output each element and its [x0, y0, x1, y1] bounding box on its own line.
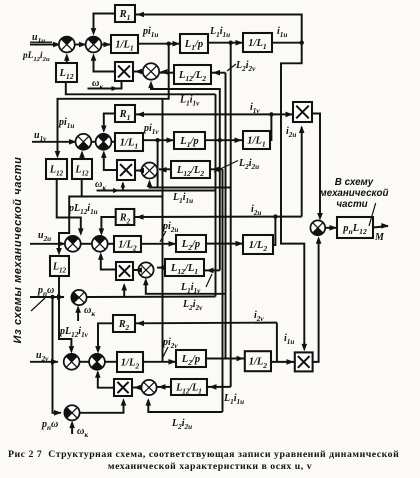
svg-text:L2i2v: L2i2v — [235, 60, 256, 73]
wire sum2B to 1/L1 row2 — [111, 141, 115, 143]
block pn L12 — [337, 217, 373, 238]
svg-text:L2i2v: L2i2v — [182, 299, 203, 312]
wire X torque v down — [312, 114, 320, 217]
svg-text:i1u: i1u — [277, 26, 287, 39]
summing junction row2 B — [96, 134, 112, 150]
wire i2u up — [273, 217, 275, 245]
wire i1v to X top right — [270, 114, 293, 140]
wire R2 out row3 — [101, 217, 115, 231]
svg-text:i2u: i2u — [286, 126, 296, 139]
summing junction row4 B — [89, 354, 105, 370]
svg-text:1/L1: 1/L1 — [247, 135, 266, 148]
summing junction row4 A — [64, 354, 80, 370]
bus L1i1u — [230, 43, 232, 387]
wire L12/L2 out row1 — [160, 72, 174, 74]
block L12/L1 row3 — [165, 259, 204, 276]
svg-text:1/L1: 1/L1 — [248, 38, 267, 51]
wire X out to sum row4 — [98, 372, 114, 388]
block R1 row1 — [115, 5, 135, 22]
wire wk into X row1 — [88, 81, 122, 89]
multiplier X torque u — [295, 352, 313, 371]
wire R2 out row4 — [98, 323, 113, 349]
node i1u — [300, 41, 304, 45]
block 1/L1 right row1 — [243, 33, 272, 52]
wire wk stub — [77, 308, 79, 321]
svg-text:pi2u: pi2u — [162, 221, 178, 234]
svg-text:i2u: i2u — [251, 204, 261, 217]
svg-text:L1i1v: L1i1v — [179, 95, 200, 108]
bus L2i2v — [225, 73, 227, 359]
svg-text:1/L2: 1/L2 — [118, 239, 137, 252]
block L2/p row4 — [176, 350, 206, 367]
multiplier X row1 — [115, 62, 133, 81]
svg-text:R1: R1 — [119, 109, 131, 122]
block R2 row3 — [116, 209, 135, 225]
wire L2/p out row3 — [206, 243, 243, 245]
wire L12/L1 out row4 — [157, 386, 171, 388]
wire wk stub bottom — [71, 423, 73, 434]
svg-text:1/L1: 1/L1 — [120, 137, 139, 150]
wire R1 out row2 — [104, 114, 115, 131]
wire M out — [373, 226, 388, 228]
wire wk out — [87, 296, 216, 299]
svg-text:R1: R1 — [119, 9, 131, 22]
multiplier X row3 — [116, 262, 133, 280]
block 1/L2 right row4 — [245, 351, 271, 371]
summing junction torque — [310, 220, 325, 235]
wire X out to sum row3 — [101, 255, 116, 270]
flux sum circle row1 — [143, 63, 159, 79]
svg-text:u2u: u2u — [38, 230, 51, 243]
pointer L2i2u — [214, 161, 238, 173]
block L2/p row3 — [176, 235, 206, 252]
summing junction row1 B — [86, 37, 102, 53]
svg-text:ωк: ωк — [84, 305, 95, 318]
wire sum1B to 1/L1 — [101, 44, 111, 46]
wire i2u right — [275, 216, 301, 218]
svg-text:pi1u: pi1u — [142, 26, 158, 39]
underline u1u — [30, 41, 52, 43]
caption line 1 — [8, 449, 414, 460]
svg-text:i2v: i2v — [254, 310, 264, 323]
block L12 B row2 — [72, 159, 92, 179]
wire X out to sum row2 — [104, 153, 117, 170]
wire i2u feed to L12 row1 — [66, 82, 216, 94]
node pn w — [50, 295, 54, 299]
pointer L1i1v — [206, 274, 212, 287]
node pi1v — [155, 138, 159, 142]
pointer pi2v — [163, 347, 169, 358]
svg-text:pL12i1u: pL12i1u — [68, 203, 98, 216]
wire sum4B to 1/L2 row4 — [105, 361, 117, 363]
wire flux sum to X row2 — [135, 170, 142, 172]
wire sum1A to sum1B — [75, 44, 86, 46]
wire L12/L1 out row3 — [157, 267, 165, 269]
wire X torque up — [313, 241, 319, 362]
block L1/p row1 — [180, 34, 208, 53]
wire pL12i1v down to row4 — [59, 276, 71, 349]
wire R1 out to sum row1 — [94, 14, 116, 31]
wire pn w input — [30, 296, 64, 298]
block L12/L1 row4 — [171, 379, 207, 395]
wire u1u input — [30, 44, 60, 46]
svg-text:1/L2: 1/L2 — [121, 357, 140, 370]
svg-text:L12/L1: L12/L1 — [175, 382, 202, 395]
svg-text:1/L2: 1/L2 — [249, 357, 268, 370]
wire i1u to R1 row1 — [135, 15, 302, 43]
flux sum circle row2 — [142, 163, 158, 179]
wire wk out bottom — [80, 401, 124, 413]
wire 1/L1 to L1/p row1 — [138, 43, 180, 45]
block 1/L1 right row2 — [243, 131, 270, 149]
svg-text:L12/L1: L12/L1 — [170, 263, 198, 276]
svg-text:L12: L12 — [74, 164, 89, 177]
block 1/L2 row4 — [117, 352, 143, 372]
summing junction row2 A — [76, 134, 92, 150]
svg-text:L12: L12 — [52, 261, 67, 274]
block 1/L2 row3 — [114, 236, 141, 252]
wire i2v to R2 row4 — [135, 322, 277, 325]
block R1 row2 — [115, 105, 135, 122]
svg-text:L1/p: L1/p — [179, 136, 198, 149]
wire wk up into X row3 — [123, 285, 125, 297]
bus omega line — [215, 94, 217, 296]
svg-text:L1i1u: L1i1u — [223, 393, 244, 406]
wire sum4A to sum4B — [80, 361, 90, 363]
pointer pi2u — [160, 231, 166, 242]
wire feed L12B — [81, 179, 83, 197]
wire pn w down — [53, 297, 62, 413]
svg-text:L12/L2: L12/L2 — [178, 70, 206, 83]
wire wk up into X row2 — [122, 183, 124, 191]
wire i1v to R1 row2 — [135, 113, 271, 115]
svg-text:механической: механической — [320, 188, 389, 199]
svg-text:pi1v: pi1v — [143, 123, 159, 136]
pointer L2i2v — [227, 64, 236, 71]
wire i2u up to X — [301, 127, 303, 217]
flux sum circle row3 — [138, 262, 153, 277]
svg-text:L2i2u: L2i2u — [238, 158, 259, 171]
pointer from mech part — [31, 298, 45, 311]
wire i2v out — [271, 361, 295, 363]
svg-text:pпω: pпω — [41, 419, 58, 432]
summing junction row3 A — [65, 236, 81, 252]
wire 1/L2 to L2/p row3 — [141, 243, 176, 245]
node i1v — [269, 112, 273, 116]
block 1/L1 row2 — [115, 133, 143, 151]
svg-text:pL12i2u: pL12i2u — [22, 51, 50, 63]
svg-text:u1u: u1u — [32, 32, 45, 45]
wire sum2A to sum2B — [91, 141, 96, 143]
summing junction row3 B — [92, 236, 108, 252]
node pi1u — [167, 42, 171, 46]
svg-text:L12: L12 — [58, 68, 73, 81]
wire L1i1v to flux sum row1 — [151, 84, 221, 89]
svg-text:R2: R2 — [118, 319, 130, 332]
wire i2v branch up — [276, 323, 278, 362]
wire sum3A to sum3B — [81, 243, 92, 245]
svg-text:pi1u: pi1u — [58, 117, 74, 130]
wire cross branch down to L12 row3 — [59, 197, 163, 252]
wire L2/p out row4 — [206, 358, 245, 360]
wire L1/p to 1/L1 right row1 — [208, 42, 243, 44]
multiplier X row2 — [117, 160, 135, 180]
wire u2u input — [30, 243, 65, 245]
caption line 2 — [0, 461, 420, 472]
wire flux sum to X row3 — [133, 269, 138, 271]
wire i1u down to multiplier — [281, 43, 304, 346]
multiplier X row4 — [114, 379, 132, 396]
block L12/L2 row2 — [171, 161, 210, 178]
block 1/L2 right row3 — [243, 235, 273, 254]
wire 1/L2 to L2/p row4 — [143, 361, 176, 363]
wire L12 up to sum row1 — [66, 58, 68, 63]
summing junction wk bottom — [64, 405, 79, 420]
wire L2i2u into L12/L2 row2 — [210, 168, 223, 170]
wire u1v input — [32, 141, 76, 143]
svg-text:M: M — [374, 232, 385, 243]
multiplier X torque v — [293, 102, 312, 122]
svg-text:pi2v: pi2v — [162, 337, 178, 350]
svg-text:ωк: ωк — [77, 426, 88, 439]
block 1/L1 row1 — [111, 35, 138, 53]
wire L2i2v into L12/L2 row1 — [211, 72, 226, 74]
block R2 row4 — [113, 315, 135, 332]
svg-text:L2/p: L2/p — [181, 354, 200, 367]
wire to pnL12 — [325, 227, 337, 229]
wire 1/L1 to L1/p row2 — [143, 139, 174, 141]
wire i1u out — [272, 42, 303, 44]
wire L1/p to 1/L1 right row2 — [205, 139, 243, 141]
wire L1i1u to flux sum row2 — [150, 183, 231, 188]
bus L2i2u — [222, 169, 224, 412]
svg-text:R2: R2 — [119, 212, 131, 225]
wire pi1v branch down — [157, 140, 159, 187]
wire X out to sum row1 — [94, 58, 116, 72]
node L1i1v — [218, 138, 222, 142]
summing junction row1 A — [59, 37, 75, 53]
wire L12/L2 out row2 — [159, 168, 171, 170]
svg-text:L12/L2: L12/L2 — [176, 165, 204, 178]
bus L1i1v — [219, 89, 221, 270]
wire L2i2u to flux sum row4 — [148, 400, 222, 412]
svg-text:i1u: i1u — [284, 333, 294, 346]
svg-text:L1i1u: L1i1u — [209, 26, 230, 39]
wire L12B to sum row2 — [81, 155, 83, 159]
svg-text:pпL12: pпL12 — [342, 223, 367, 236]
wire L1i1u into L12/L1 row4 — [207, 386, 231, 388]
wire u2v input — [30, 361, 58, 363]
wire flux sum to X row1 — [133, 71, 143, 73]
wire L12A out to row3 sum — [57, 179, 81, 231]
block L12 row3 — [50, 256, 69, 276]
svg-text:L1i1u: L1i1u — [172, 192, 193, 205]
svg-text:L1/p: L1/p — [184, 39, 203, 52]
node L1i1u — [229, 41, 233, 45]
pointer to M wire — [369, 203, 376, 226]
wire wk row2 — [97, 190, 216, 192]
block L12/L2 row1 — [174, 65, 211, 84]
node i2u — [273, 214, 277, 218]
svg-text:L2/p: L2/p — [181, 239, 200, 252]
wire pi1u down to L12 — [58, 44, 169, 154]
block L12 row1 — [56, 63, 77, 82]
block L12 A row2 — [46, 159, 67, 179]
svg-text:1/L2: 1/L2 — [249, 240, 268, 253]
wire sum3B to 1/L2 — [108, 243, 114, 245]
wire flux sum to X row4 — [132, 387, 141, 389]
wire L1i1v into L12/L1 row3 — [204, 269, 220, 271]
svg-text:В схему: В схему — [335, 177, 374, 188]
wire i2u to R2 row3 — [134, 216, 275, 218]
svg-text:pL12i1v: pL12i1v — [59, 326, 89, 339]
wire L2i2v to flux sum row3 — [146, 281, 226, 294]
flux sum circle row4 — [141, 380, 156, 395]
svg-text:L2i2u: L2i2u — [171, 418, 192, 431]
wire pi2v long vertical — [162, 99, 164, 362]
svg-text:Из схемы механической части: Из схемы механической части — [12, 157, 24, 344]
svg-text:1/L1: 1/L1 — [115, 39, 134, 52]
svg-text:L12: L12 — [49, 164, 64, 177]
block L1/p row2 — [174, 132, 205, 149]
svg-text:части: части — [336, 199, 367, 210]
svg-text:i1v: i1v — [250, 102, 260, 115]
summing junction wk — [71, 290, 86, 305]
